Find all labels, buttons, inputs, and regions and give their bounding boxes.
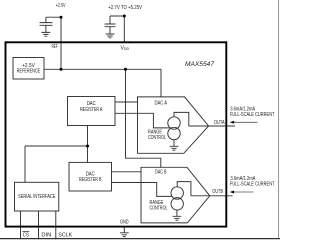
- svg-text:FULL-SCALE CURRENT: FULL-SCALE CURRENT: [230, 112, 275, 118]
- svg-text:SERIAL INTERFACE: SERIAL INTERFACE: [18, 194, 56, 200]
- svg-text:OUTB: OUTB: [212, 189, 223, 195]
- svg-text:+2.7V TO +5.25V: +2.7V TO +5.25V: [108, 5, 142, 11]
- svg-text:CONTROL: CONTROL: [148, 135, 166, 141]
- svg-text:GND: GND: [120, 219, 129, 225]
- svg-text:CONTROL: CONTROL: [150, 206, 168, 212]
- svg-text:CS: CS: [23, 233, 30, 239]
- svg-text:REFERENCE: REFERENCE: [17, 69, 41, 75]
- svg-text:REF: REF: [52, 44, 58, 50]
- svg-text:FULL-SCALE CURRENT: FULL-SCALE CURRENT: [230, 181, 275, 187]
- svg-text:SCLK: SCLK: [58, 233, 72, 239]
- svg-text:OUTA: OUTA: [214, 120, 225, 126]
- svg-text:VDD: VDD: [121, 45, 130, 51]
- svg-text:MAX5547: MAX5547: [185, 61, 214, 68]
- svg-text:DAC A: DAC A: [155, 101, 168, 107]
- svg-text:DIN: DIN: [41, 233, 51, 239]
- svg-text:REGISTER A: REGISTER A: [80, 107, 103, 113]
- svg-text:+2.5V: +2.5V: [56, 3, 66, 9]
- svg-text:REGISTER B: REGISTER B: [79, 177, 102, 183]
- svg-text:DAC B: DAC B: [155, 170, 167, 176]
